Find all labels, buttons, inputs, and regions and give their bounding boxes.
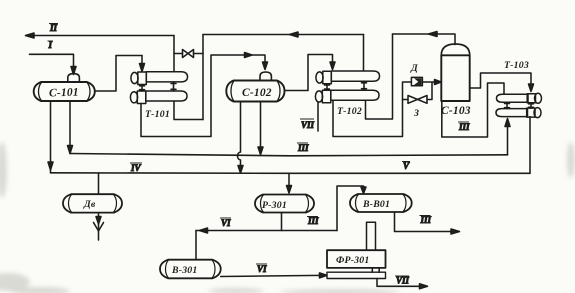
svg-text:Дв: Дв (83, 199, 96, 210)
svg-text:III: III (297, 143, 309, 153)
svg-text:VII: VII (396, 276, 410, 286)
svg-text:VI: VI (221, 218, 231, 228)
svg-text:IV: IV (130, 163, 142, 173)
svg-text:VII: VII (301, 120, 315, 130)
svg-text:Т-102: Т-102 (337, 106, 362, 117)
svg-text:III: III (420, 215, 432, 225)
svg-text:Т-103: Т-103 (504, 60, 529, 71)
svg-text:Т-101: Т-101 (145, 109, 170, 120)
svg-text:II: II (49, 23, 58, 33)
svg-text:VI: VI (257, 264, 267, 274)
svg-text:V: V (403, 161, 410, 171)
svg-text:С-101: С-101 (49, 86, 79, 99)
svg-text:Р-301: Р-301 (262, 200, 287, 211)
svg-text:З: З (413, 108, 419, 119)
svg-text:III: III (458, 122, 470, 132)
svg-text:III: III (307, 216, 319, 226)
svg-text:В-301: В-301 (171, 265, 198, 276)
svg-text:С-103: С-103 (441, 105, 471, 117)
svg-text:С-102: С-102 (242, 87, 272, 99)
svg-text:ФР-301: ФР-301 (336, 255, 369, 266)
svg-text:В-В01: В-В01 (362, 199, 390, 210)
svg-text:Д: Д (410, 63, 418, 74)
